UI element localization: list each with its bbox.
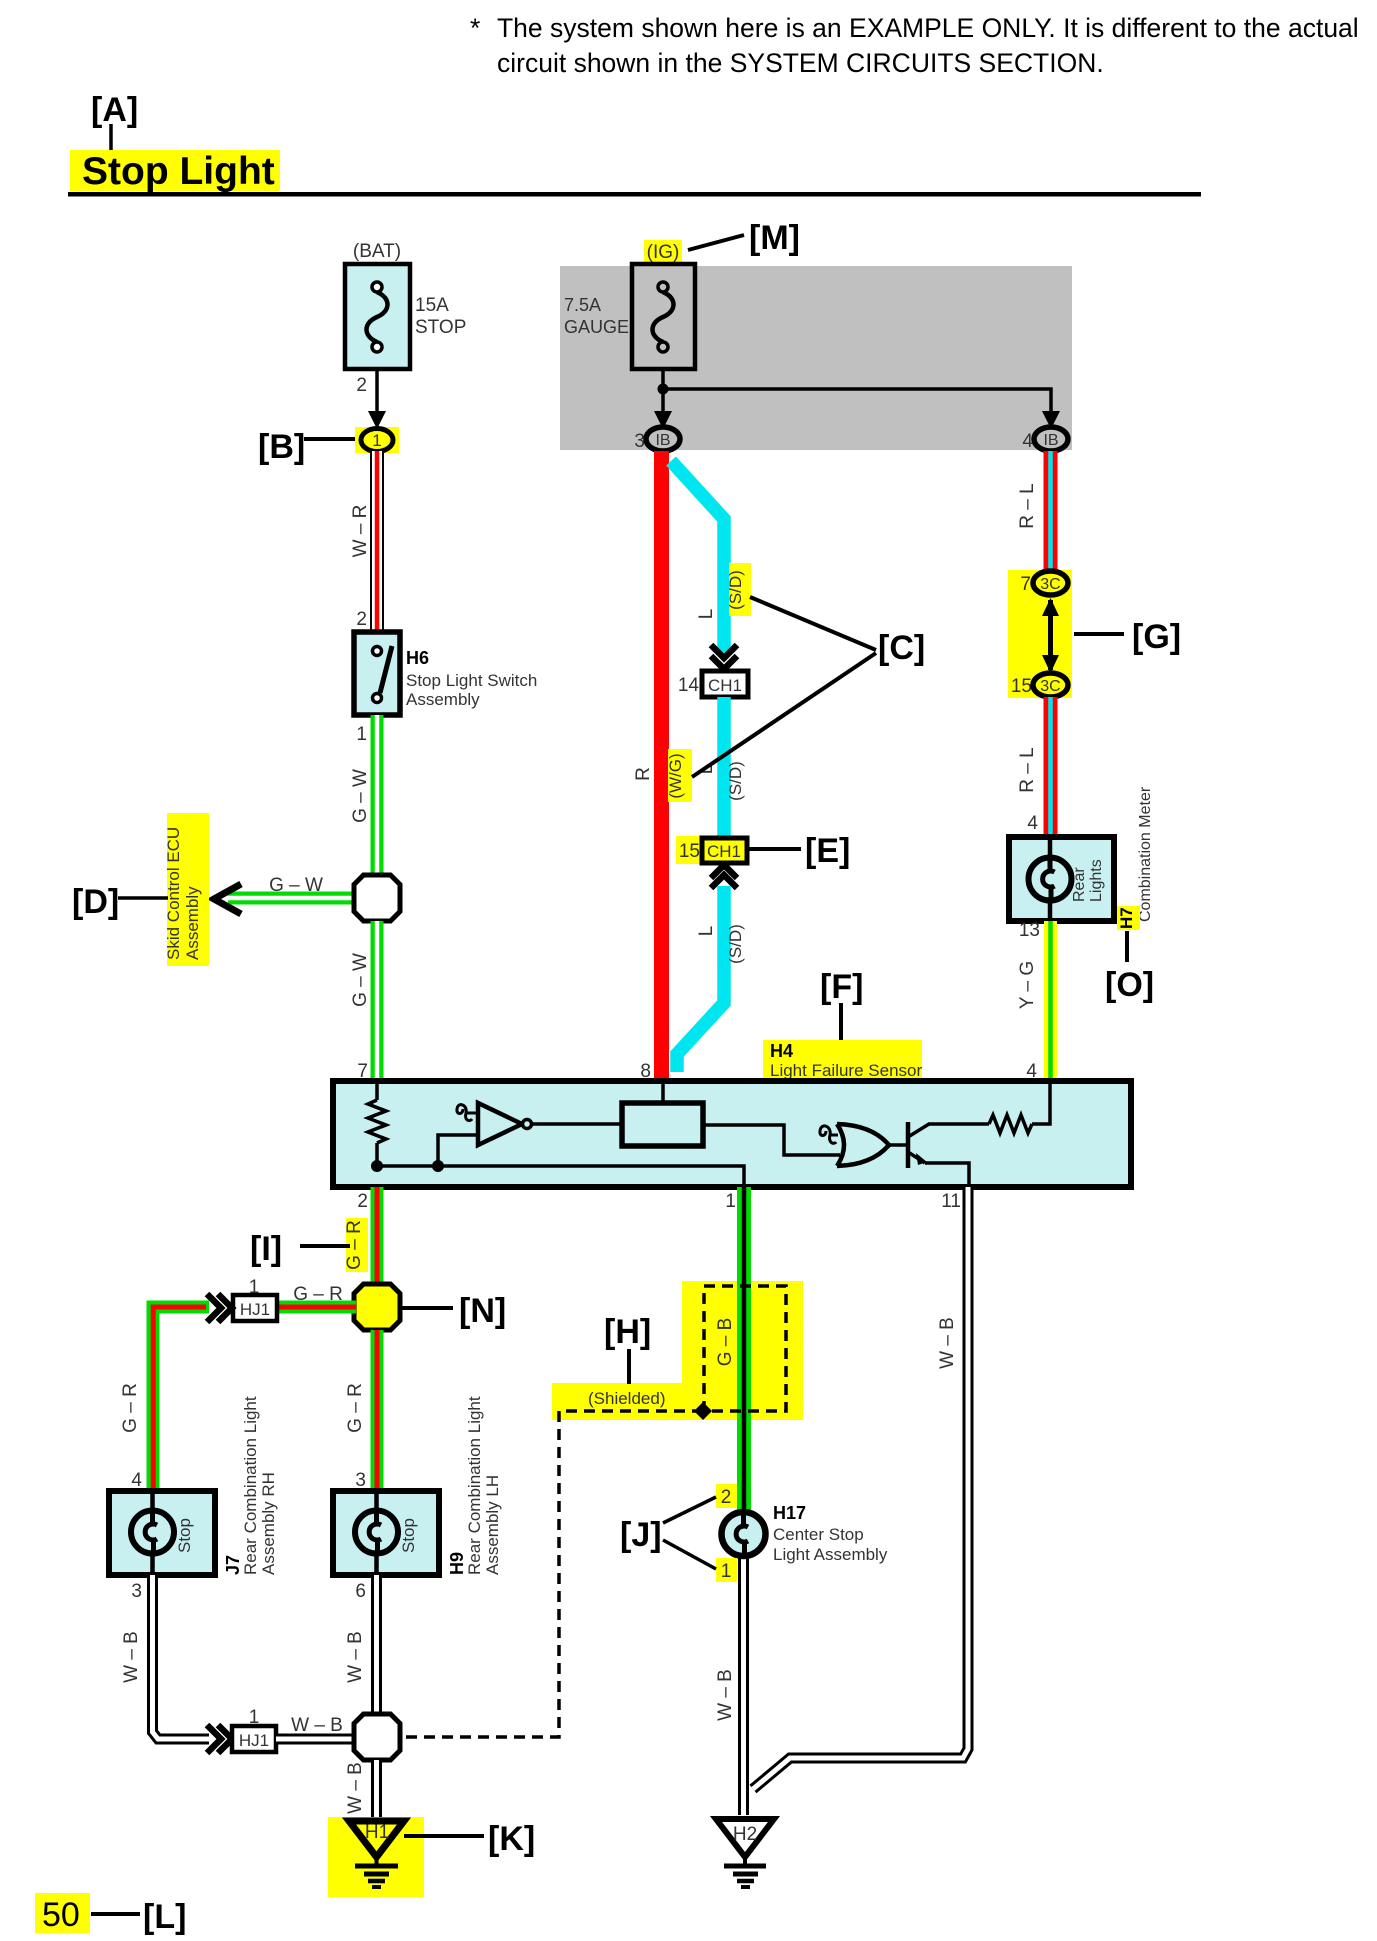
J7 name label bbox=[223, 1396, 278, 1575]
wire to inverter input bbox=[438, 1135, 478, 1166]
(W/G) tag bbox=[666, 749, 692, 802]
connector CH1 15 highlighted bbox=[676, 836, 747, 864]
svg-text:W – B: W – B bbox=[291, 1715, 343, 1736]
svg-text:H4: H4 bbox=[770, 1041, 793, 1061]
wire R (red) bbox=[654, 451, 669, 1083]
rear lights bulb box H7 bbox=[1009, 837, 1114, 921]
H7 tag bbox=[1117, 906, 1140, 930]
svg-text:1: 1 bbox=[356, 724, 367, 745]
svg-text:Y – G: Y – G bbox=[1017, 961, 1038, 1009]
timer box bbox=[622, 1103, 703, 1146]
lamp H9 Rear Combination Light Assembly LH bbox=[333, 1491, 439, 1575]
junction arrows between 3C connectors bbox=[1042, 598, 1059, 673]
svg-text:[M]: [M] bbox=[749, 219, 800, 257]
wire W-R bbox=[370, 451, 384, 633]
svg-text:Light Failure Sensor: Light Failure Sensor bbox=[770, 1061, 922, 1080]
node dot 1 bbox=[371, 1160, 383, 1172]
fuse 15A STOP (BAT) bbox=[345, 241, 466, 369]
wire timer to pin 8 bbox=[661, 1084, 665, 1103]
leader C to W/G bbox=[692, 653, 876, 777]
svg-text:G – R: G – R bbox=[120, 1383, 141, 1433]
svg-text:W – B: W – B bbox=[937, 1317, 958, 1369]
svg-text:Skid Control ECU: Skid Control ECU bbox=[164, 827, 183, 960]
inverter hook bbox=[457, 1105, 478, 1121]
svg-text:3C: 3C bbox=[1040, 678, 1060, 695]
svg-text:2: 2 bbox=[721, 1487, 732, 1508]
OR gate U2 bbox=[837, 1124, 889, 1166]
svg-text:(Shielded): (Shielded) bbox=[588, 1389, 666, 1408]
wire L shielded mid bbox=[717, 697, 731, 838]
wire G-W lower bbox=[371, 921, 384, 1083]
svg-text:H2: H2 bbox=[733, 1824, 757, 1845]
junction dot bbox=[658, 384, 669, 395]
arrow into IB4 bbox=[1042, 411, 1060, 429]
wire inverter to timer bbox=[532, 1122, 622, 1126]
(IG) tag bbox=[644, 240, 682, 263]
svg-text:H6: H6 bbox=[406, 648, 429, 668]
svg-text:[L]: [L] bbox=[143, 1898, 186, 1936]
svg-text:4: 4 bbox=[1027, 813, 1038, 834]
title Stop Light bbox=[70, 150, 280, 191]
node N octagon (yellow) bbox=[354, 1284, 400, 1330]
svg-text:3: 3 bbox=[634, 431, 645, 452]
svg-text:[B]: [B] bbox=[258, 428, 305, 466]
svg-text:Stop: Stop bbox=[399, 1518, 418, 1553]
svg-text:(W/G): (W/G) bbox=[666, 753, 685, 798]
node D octagon junction bbox=[354, 875, 400, 921]
svg-text:Stop Light: Stop Light bbox=[82, 150, 275, 193]
wire resistor to rail bbox=[375, 1143, 379, 1166]
svg-text:Light Assembly: Light Assembly bbox=[773, 1545, 888, 1564]
wire fuse to bus bbox=[661, 369, 665, 415]
svg-text:W – B: W – B bbox=[715, 1669, 736, 1721]
wire Y-G bbox=[1044, 921, 1057, 1083]
wire W-B from H9 pin 6 bbox=[371, 1575, 382, 1716]
connector 4 IB bbox=[1034, 427, 1068, 451]
svg-text:R – L: R – L bbox=[1017, 483, 1038, 528]
arrow into CH1-15 bbox=[711, 865, 737, 888]
pin 2 of H17 bbox=[716, 1484, 737, 1508]
connector 7 3C bbox=[1033, 571, 1068, 595]
wire emitter to pin 11 bbox=[925, 1163, 969, 1184]
svg-text:G – R: G – R bbox=[345, 1383, 366, 1433]
svg-text:[D]: [D] bbox=[72, 883, 119, 921]
svg-text:15: 15 bbox=[1011, 676, 1032, 697]
svg-text:Rear Combination Light: Rear Combination Light bbox=[241, 1396, 260, 1575]
pin 8 label done above; H4 box Light Failure Sensor bbox=[333, 1081, 1131, 1187]
svg-text:[J]: [J] bbox=[620, 1516, 662, 1554]
wire W-B from J7 pin 3 bbox=[153, 1575, 210, 1739]
svg-text:Rear: Rear bbox=[1071, 867, 1088, 902]
wire L shielded upper bbox=[671, 461, 724, 653]
svg-text:[E]: [E] bbox=[805, 832, 850, 870]
wire fuse to connector B bbox=[375, 369, 379, 415]
lamp J7 Rear Combination Light Assembly RH bbox=[109, 1491, 215, 1575]
ground H2 bbox=[716, 1819, 774, 1887]
wire G-W branch to skid ECU bbox=[228, 892, 356, 905]
shield junction diamond bbox=[694, 1402, 712, 1420]
internal wire pin7 bbox=[375, 1084, 379, 1100]
(S/D) tag 1 bbox=[726, 563, 751, 616]
wire W-B from pin 11 bbox=[753, 1187, 968, 1789]
svg-text:CH1: CH1 bbox=[707, 842, 741, 861]
svg-text:15: 15 bbox=[679, 841, 700, 862]
svg-text:7.5A: 7.5A bbox=[564, 295, 601, 315]
svg-text:R – L: R – L bbox=[1017, 747, 1038, 792]
transistor Q1 bbox=[908, 1122, 929, 1168]
OR gate hook bbox=[820, 1126, 838, 1143]
svg-text:G – B: G – B bbox=[715, 1318, 736, 1367]
junction block (gray box) bbox=[560, 266, 1072, 450]
svg-text:Stop: Stop bbox=[175, 1518, 194, 1553]
svg-text:4: 4 bbox=[131, 1470, 142, 1491]
svg-text:1: 1 bbox=[725, 1191, 736, 1212]
svg-text:GAUGE: GAUGE bbox=[564, 317, 629, 337]
svg-text:2: 2 bbox=[356, 375, 367, 396]
fuse 7.5A GAUGE bbox=[564, 264, 695, 369]
svg-text:Assembly: Assembly bbox=[406, 690, 480, 709]
wire timer to OR gate bbox=[703, 1125, 840, 1155]
svg-text:11: 11 bbox=[941, 1191, 961, 1212]
svg-text:2: 2 bbox=[356, 609, 367, 630]
svg-text:L: L bbox=[696, 609, 717, 620]
svg-text:Rear Combination Light: Rear Combination Light bbox=[465, 1396, 484, 1575]
svg-text:H9: H9 bbox=[447, 1552, 467, 1575]
svg-text:Assembly: Assembly bbox=[183, 886, 202, 960]
svg-text:Assembly RH: Assembly RH bbox=[259, 1472, 278, 1575]
wire OR to transistor bbox=[889, 1143, 906, 1147]
wire G-R octagon to HJ1 bbox=[277, 1301, 356, 1314]
svg-text:H7: H7 bbox=[1117, 907, 1136, 929]
svg-text:HJ1: HJ1 bbox=[240, 1300, 270, 1319]
wire bus to right bbox=[663, 389, 1051, 415]
svg-text:G – R: G – R bbox=[293, 1284, 343, 1305]
svg-text:HJ1: HJ1 bbox=[239, 1731, 269, 1750]
svg-text:1: 1 bbox=[721, 1561, 732, 1582]
svg-text:IB: IB bbox=[655, 432, 670, 449]
svg-text:(S/D): (S/D) bbox=[726, 761, 745, 801]
svg-text:[A]: [A] bbox=[91, 91, 138, 129]
svg-text:J7: J7 bbox=[223, 1555, 243, 1575]
svg-text:*: * bbox=[470, 13, 480, 43]
connector B1 bbox=[355, 427, 399, 453]
wire G-R from pin 2 bbox=[371, 1187, 384, 1285]
switch H6 Stop Light Switch Assembly bbox=[354, 632, 537, 715]
svg-text:G – W: G – W bbox=[269, 875, 323, 896]
svg-text:R: R bbox=[633, 767, 654, 781]
svg-text:W – B: W – B bbox=[121, 1631, 142, 1683]
svg-text:L: L bbox=[696, 926, 717, 937]
arrow into IB3 bbox=[654, 411, 672, 429]
svg-text:7: 7 bbox=[1020, 574, 1031, 595]
svg-text:[O]: [O] bbox=[1105, 966, 1154, 1004]
wire G-W upper bbox=[371, 715, 384, 878]
resistor R1 bbox=[368, 1100, 386, 1143]
svg-text:3: 3 bbox=[355, 1470, 366, 1491]
svg-text:circuit shown in the SYSTEM CI: circuit shown in the SYSTEM CIRCUITS SEC… bbox=[497, 48, 1104, 78]
ground junction octagon bbox=[354, 1714, 400, 1760]
H17 name bbox=[773, 1503, 888, 1564]
bottom rail bbox=[377, 1166, 744, 1184]
svg-text:14: 14 bbox=[678, 675, 700, 696]
svg-text:[G]: [G] bbox=[1132, 618, 1181, 656]
svg-text:[H]: [H] bbox=[604, 1313, 651, 1351]
H4 tag Light Failure Sensor bbox=[763, 1040, 922, 1080]
wire resistor to pin 4 bbox=[1032, 1084, 1050, 1124]
op-amp U1 (inverter) bbox=[478, 1103, 522, 1145]
svg-text:13: 13 bbox=[1019, 920, 1040, 941]
svg-text:3C: 3C bbox=[1040, 576, 1060, 593]
leader C to S/D bbox=[750, 597, 876, 650]
svg-text:50: 50 bbox=[42, 1896, 80, 1934]
wire G-R left branch bbox=[153, 1307, 209, 1492]
svg-text:G – W: G – W bbox=[350, 769, 371, 823]
shield drain dashed wire bbox=[404, 1411, 703, 1737]
svg-text:[K]: [K] bbox=[488, 1820, 535, 1858]
svg-text:[F]: [F] bbox=[820, 968, 863, 1006]
ground H1 (highlighted) bbox=[328, 1817, 424, 1897]
svg-text:IB: IB bbox=[1043, 432, 1058, 449]
connector HJ1 lower bbox=[232, 1726, 276, 1752]
resistor R2 bbox=[989, 1115, 1032, 1133]
svg-text:6: 6 bbox=[355, 1581, 366, 1602]
connector 3 IB bbox=[646, 427, 680, 451]
wire W-B octagon to H1 bbox=[371, 1760, 382, 1820]
connector CH1 14 bbox=[702, 671, 748, 697]
wire G-B from pin 1 bbox=[737, 1187, 751, 1513]
svg-text:15A: 15A bbox=[415, 295, 449, 316]
svg-text:G – W: G – W bbox=[350, 953, 371, 1007]
G-R tag highlighted bbox=[344, 1218, 368, 1272]
svg-text:Center Stop: Center Stop bbox=[773, 1525, 864, 1544]
svg-text:STOP: STOP bbox=[415, 317, 466, 338]
svg-text:2: 2 bbox=[357, 1191, 368, 1212]
svg-text:The system shown here is an EX: The system shown here is an EXAMPLE ONLY… bbox=[497, 13, 1359, 43]
shielded area highlight bbox=[552, 1281, 803, 1420]
svg-text:Combination Meter: Combination Meter bbox=[1137, 786, 1154, 922]
bulb H17 Center Stop Light bbox=[722, 1512, 766, 1815]
leader A bbox=[109, 124, 113, 157]
connector block G (yellow) bbox=[1008, 570, 1072, 698]
svg-text:W – B: W – B bbox=[345, 1631, 366, 1683]
node dot 2 bbox=[432, 1160, 444, 1172]
svg-text:[I]: [I] bbox=[250, 1230, 282, 1268]
arrow into CH1-14 bbox=[711, 645, 737, 669]
svg-text:(IG): (IG) bbox=[647, 242, 680, 263]
svg-text:H1: H1 bbox=[365, 1822, 389, 1843]
arrow to skid control ECU bbox=[214, 884, 241, 914]
arrow into HJ1 lower bbox=[207, 1725, 232, 1753]
connector 15 3C bbox=[1033, 673, 1068, 697]
shield dashed box bbox=[704, 1286, 786, 1411]
svg-text:[N]: [N] bbox=[459, 1292, 506, 1330]
svg-text:Stop Light Switch: Stop Light Switch bbox=[406, 671, 537, 690]
svg-text:1: 1 bbox=[372, 431, 381, 450]
svg-text:H17: H17 bbox=[773, 1503, 806, 1523]
svg-text:Assembly LH: Assembly LH bbox=[483, 1475, 502, 1575]
Skid Control ECU Assembly label bbox=[164, 813, 209, 966]
leader M bbox=[688, 235, 744, 250]
svg-text:CH1: CH1 bbox=[708, 676, 742, 695]
svg-text:3: 3 bbox=[131, 1581, 142, 1602]
svg-text:(S/D): (S/D) bbox=[726, 570, 745, 610]
page number 50 bbox=[35, 1893, 90, 1934]
svg-text:W – B: W – B bbox=[345, 1762, 366, 1814]
svg-text:W – R: W – R bbox=[350, 505, 371, 558]
title rule bbox=[68, 192, 1201, 197]
wire L shielded lower bbox=[677, 886, 724, 1072]
H9 name label bbox=[447, 1396, 502, 1575]
wire W-B HJ1 to octagon bbox=[276, 1734, 356, 1745]
wire G-R below node N bbox=[371, 1330, 384, 1492]
svg-text:(BAT): (BAT) bbox=[353, 241, 401, 262]
wire collector to resistor bbox=[928, 1122, 989, 1126]
wire R-L upper right bbox=[1044, 451, 1058, 572]
svg-text:(S/D): (S/D) bbox=[726, 924, 745, 964]
connector HJ1 bbox=[233, 1295, 277, 1321]
wire R-L lower bbox=[1044, 697, 1058, 838]
arrow into HJ1 bbox=[207, 1294, 232, 1322]
pin 1 of H17 bbox=[716, 1558, 737, 1582]
svg-text:[C]: [C] bbox=[878, 629, 925, 667]
svg-text:Lights: Lights bbox=[1088, 859, 1105, 902]
